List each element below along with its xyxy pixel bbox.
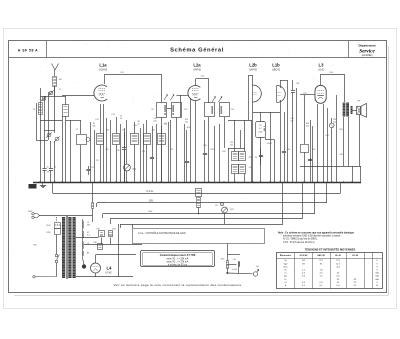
wire x94 drop bbox=[94, 130, 96, 182]
wire L4 top bbox=[95, 255, 97, 263]
wire B+ riser right bbox=[340, 182, 342, 194]
pickup jack PU bbox=[220, 202, 223, 205]
caracteristiques text bbox=[160, 254, 196, 267]
wire tube L1a bottom bbox=[103, 104, 105, 182]
wire L1b anode up bbox=[280, 80, 282, 88]
wire L2a screen down bbox=[190, 99, 192, 182]
winding tap coil 1 bbox=[83, 221, 84, 228]
detector diode tube L2b bbox=[252, 85, 261, 102]
svg-text:M 4Ω: M 4Ω bbox=[267, 143, 272, 145]
wire padder down bbox=[80, 145, 82, 182]
wire L2a grid left bbox=[177, 95, 189, 97]
svg-text:C20: C20 bbox=[142, 151, 145, 153]
IF transformer 2 primary bbox=[205, 103, 215, 117]
wire taps to lamp bbox=[83, 258, 85, 265]
antenna symbol bbox=[52, 64, 59, 77]
capacitor C15 bbox=[122, 148, 126, 150]
wire jack down bbox=[331, 128, 333, 182]
svg-text:R10: R10 bbox=[187, 127, 190, 129]
wire det link stub bbox=[265, 137, 267, 140]
wire R2 down bbox=[116, 145, 118, 183]
wire x310 drop bbox=[310, 120, 312, 182]
labels resistor row bbox=[95, 114, 190, 132]
svg-text:C25: C25 bbox=[231, 109, 234, 111]
resistor R30 hatched bbox=[226, 261, 228, 269]
wire heater y236 bbox=[76, 237, 99, 239]
C.A.G. feedback box bbox=[133, 229, 265, 244]
drawing frame border bbox=[9, 41, 387, 293]
antenna coil bbox=[53, 77, 57, 87]
svg-text:Caractéristiques haut LFT 7/: Caractéristiques haut LFT 7/58 bbox=[160, 254, 196, 257]
wire L1a anode to C51 bbox=[104, 74, 106, 84]
mains transformer secondary bbox=[68, 217, 71, 278]
wire y166 horizontal bbox=[300, 166, 361, 168]
wire L3 grid left bbox=[300, 94, 315, 96]
wire B+ line 3 bbox=[103, 213, 315, 215]
svg-text:C 54 : 27117 (au lieu 26.131 s: C 54 : 27117 (au lieu 26.131 s) bbox=[283, 242, 315, 244]
svg-text:4,7: 4,7 bbox=[259, 128, 262, 130]
svg-text:52: 52 bbox=[54, 167, 56, 169]
wire left stub 4 bbox=[110, 219, 112, 224]
wire L2a anode up bbox=[195, 79, 197, 85]
resistor R8 bbox=[131, 134, 139, 145]
wire R5 up bbox=[161, 126, 163, 134]
wire pot up bbox=[126, 120, 128, 164]
wire c8 bend bbox=[88, 171, 90, 175]
wire R5 down bbox=[161, 145, 163, 183]
coupling box bbox=[301, 145, 309, 153]
wire x152 seg2 bbox=[152, 159, 154, 182]
wire x352 drop bbox=[352, 166, 354, 182]
svg-text:R17: R17 bbox=[303, 93, 306, 95]
wire x297 drop bbox=[296, 88, 298, 182]
capacitor C17 bbox=[150, 158, 154, 159]
tone potentiometer bbox=[222, 207, 228, 213]
capacitor C58 bbox=[291, 91, 295, 93]
triode tube L1b bbox=[276, 86, 285, 103]
svg-text:C35: C35 bbox=[96, 229, 99, 231]
wire x205 seg bbox=[204, 120, 206, 153]
wire x284 seg bbox=[284, 112, 286, 151]
wire x44 cap down bbox=[44, 170, 46, 182]
loudspeaker HP bbox=[357, 103, 367, 117]
wire x219 drop bbox=[219, 124, 221, 182]
svg-text:UL41: UL41 bbox=[318, 69, 325, 72]
wire AVC up bbox=[234, 120, 236, 152]
wire C52 horizontal bbox=[196, 78, 210, 80]
variable core arrow IF2a bbox=[212, 97, 216, 103]
svg-text:L2a: L2a bbox=[193, 63, 201, 68]
svg-text:C22: C22 bbox=[184, 109, 187, 111]
wire x118 long vertical bbox=[118, 224, 120, 277]
mains connector lower bbox=[33, 276, 57, 278]
wire x337 drop bbox=[336, 95, 338, 182]
output transformer primary bbox=[343, 103, 346, 117]
resistor R13 bbox=[232, 165, 239, 174]
svg-text:C26: C26 bbox=[203, 145, 206, 147]
svg-text:100: 100 bbox=[230, 145, 233, 147]
wire switch up bbox=[56, 235, 58, 255]
wire x185 drop bbox=[184, 124, 186, 182]
wire C52 down to IF2 bbox=[208, 79, 210, 103]
wire c47 down bbox=[238, 267, 240, 273]
dropper resistor bbox=[92, 203, 94, 209]
svg-text:10n: 10n bbox=[291, 121, 294, 123]
svg-text:245V: 245V bbox=[46, 232, 51, 234]
tensions table bbox=[277, 252, 383, 289]
svg-text:C47: C47 bbox=[233, 259, 236, 261]
wire heater y244 bbox=[84, 244, 142, 246]
wire riser x283 bbox=[282, 182, 284, 224]
winding tap coil 4 bbox=[83, 251, 84, 256]
wire B+ line 1 bbox=[53, 193, 340, 195]
wire x124 drop b bbox=[124, 132, 126, 147]
svg-text:C12: C12 bbox=[95, 119, 98, 121]
svg-text:troisième semaine 1951 à 58 de: troisième semaine 1951 à 58 dernière sem… bbox=[283, 235, 342, 238]
wire R4 up bbox=[146, 120, 148, 134]
svg-text:A2: A2 bbox=[59, 78, 61, 81]
wire C58 down bbox=[292, 92, 294, 182]
wire x187 seg2 bbox=[186, 163, 188, 182]
resistor R2 bbox=[113, 134, 120, 145]
svg-text:R6: R6 bbox=[106, 130, 108, 132]
wire x71 seg bbox=[70, 120, 72, 182]
wire transformer pri down bbox=[343, 117, 345, 166]
mains transformer heater winding bbox=[73, 217, 76, 278]
svg-text:C58: C58 bbox=[296, 83, 299, 85]
svg-text:25n: 25n bbox=[333, 122, 336, 124]
svg-text:1MΩ: 1MΩ bbox=[132, 169, 137, 171]
svg-text:Voir en dernière page la note: Voir en dernière page la note concernant… bbox=[113, 283, 242, 287]
svg-text:mA: mA bbox=[375, 272, 379, 275]
winding tap coil 2 bbox=[83, 231, 84, 238]
capacitor C45 bbox=[308, 160, 312, 161]
wire x92 vertical b bbox=[92, 209, 94, 216]
wire riser x327 bbox=[326, 182, 328, 203]
resistor R25 bbox=[99, 231, 105, 237]
caracteristiques info box bbox=[141, 251, 215, 267]
volume potentiometer R3 bbox=[124, 164, 131, 171]
IF pentode tube L2a bbox=[188, 86, 200, 101]
svg-text:30V: 30V bbox=[149, 201, 154, 203]
wire x156 drop bbox=[156, 124, 158, 182]
wire left x48 bbox=[48, 92, 50, 140]
svg-text:Schéma Général: Schéma Général bbox=[170, 47, 224, 53]
wire left drop x40 bbox=[40, 88, 42, 182]
svg-text:N° 51 : 5986.51 (au lieu de 59: N° 51 : 5986.51 (au lieu de 5987), bbox=[283, 239, 318, 241]
svg-text:R7: R7 bbox=[122, 130, 124, 132]
svg-text:L3: L3 bbox=[319, 63, 325, 68]
wire y120 right link bbox=[228, 120, 252, 122]
wire B+ riser left bbox=[52, 182, 54, 194]
det box tiny text bbox=[258, 125, 262, 134]
wire left stub line2 bbox=[96, 203, 98, 207]
svg-text:L1a: L1a bbox=[99, 63, 107, 68]
wire x51 seg bbox=[50, 141, 52, 169]
speaker coupling winding bbox=[351, 106, 353, 114]
wire L2a cathode down bbox=[195, 101, 197, 182]
wire IF1 link bbox=[167, 108, 172, 110]
wire IF2 secondary down bbox=[224, 117, 226, 148]
trimmer CT2 bbox=[49, 91, 54, 96]
wire x62 drop bbox=[62, 116, 64, 182]
svg-text:Département: Département bbox=[358, 44, 375, 48]
junction dots on bus bbox=[39, 181, 353, 183]
wire R4 down bbox=[146, 145, 148, 183]
svg-text:UY 42: UY 42 bbox=[352, 254, 359, 257]
transformer core bbox=[67, 216, 68, 279]
wire IF1 primary down bbox=[161, 117, 163, 182]
svg-text:50: 50 bbox=[255, 157, 257, 159]
wire IF1 secondary down bbox=[176, 117, 178, 182]
wire mains lower riser bbox=[56, 263, 58, 277]
resistor R26 bbox=[109, 231, 113, 237]
wire c8 link bbox=[88, 166, 90, 169]
secondary taps column bbox=[82, 219, 84, 258]
mains transformer primary bbox=[62, 217, 65, 278]
voltage selector bbox=[55, 223, 61, 235]
capacitor C47 vertical plates bbox=[239, 261, 240, 266]
wire x168 drop bbox=[168, 122, 170, 182]
dial lamp bbox=[82, 265, 86, 269]
wire AVC link bbox=[228, 148, 245, 150]
wire x55 mid bbox=[54, 86, 56, 133]
title bar bottom rule bbox=[9, 57, 386, 59]
wire padder up bbox=[80, 120, 82, 134]
filter resistor hatched bbox=[197, 198, 201, 208]
svg-text:230V: 230V bbox=[28, 211, 33, 213]
wire y120 link b bbox=[66, 120, 82, 122]
wire L1b cathode down bbox=[280, 100, 282, 182]
svg-text:C7: C7 bbox=[76, 129, 78, 131]
wire x101 stub bbox=[101, 238, 103, 245]
wire x66 seg bbox=[65, 116, 67, 182]
wire selector to transformer bbox=[60, 225, 63, 227]
wire det link right bbox=[265, 139, 274, 141]
ground symbol left bbox=[40, 183, 46, 188]
wire AVC down bbox=[234, 174, 236, 183]
svg-text:C28: C28 bbox=[210, 149, 213, 151]
output pentode tube L3 bbox=[315, 85, 326, 103]
wire x124 drop bbox=[124, 128, 126, 182]
svg-text:(contrôle): (contrôle) bbox=[362, 54, 373, 57]
ground blob left bbox=[29, 184, 37, 189]
wire L3 cathode down bbox=[317, 104, 319, 182]
detector volume box (tall rounded) bbox=[256, 122, 266, 138]
wire x245 seg bbox=[244, 120, 246, 152]
svg-text:110V: 110V bbox=[46, 225, 51, 227]
svg-text:C44: C44 bbox=[325, 135, 328, 137]
oscillator coil bbox=[38, 103, 42, 115]
svg-text:E55: E55 bbox=[33, 245, 36, 247]
resistor R4 bbox=[144, 134, 151, 145]
wire x171 drop bbox=[170, 120, 172, 182]
wire mains line bbox=[40, 215, 93, 217]
wire x310 fix bbox=[310, 158, 312, 161]
svg-text:6,3: 6,3 bbox=[87, 235, 90, 237]
wire x284 seg2 bbox=[284, 153, 286, 182]
title bar left box separator bbox=[46, 41, 48, 58]
svg-text:B6: B6 bbox=[87, 253, 89, 255]
wire coupling up bbox=[304, 95, 306, 144]
oscillator coil box bbox=[63, 105, 69, 117]
svg-text:C.A.G.: C.A.G. bbox=[146, 190, 154, 193]
wire switch dash up bbox=[56, 217, 58, 222]
svg-text:1k: 1k bbox=[138, 124, 140, 126]
left tiny labels bbox=[33, 89, 99, 174]
wire riser x302 bbox=[302, 182, 304, 219]
wire transformer sec down bbox=[348, 117, 350, 166]
note text block bbox=[278, 231, 355, 244]
svg-text:C14: C14 bbox=[133, 125, 136, 127]
trimmer CT3 bbox=[46, 132, 51, 137]
svg-text:0,1µF: 0,1µF bbox=[232, 269, 238, 271]
variable core arrow IF1b bbox=[171, 95, 175, 101]
jack circle right bbox=[330, 123, 335, 128]
IF transformer 1 secondary bbox=[172, 103, 182, 118]
wire left x44 bbox=[44, 96, 46, 135]
triode-heptode tube L1a bbox=[94, 85, 107, 101]
wire left stub 5 bbox=[120, 224, 122, 228]
wire R1 up bbox=[100, 104, 102, 134]
wire y120 link bbox=[40, 120, 62, 122]
IF transformer 1 primary bbox=[157, 103, 167, 118]
wire x110 drop bbox=[110, 120, 112, 182]
frame shadow right bbox=[388, 46, 390, 295]
svg-text:L4: L4 bbox=[107, 265, 113, 270]
wire x187 seg bbox=[186, 130, 188, 161]
variable core arrow IF1a bbox=[164, 95, 168, 101]
mains switch bbox=[55, 254, 59, 263]
wire cag drop x227 b bbox=[227, 269, 229, 274]
capacitor C4 bbox=[49, 169, 53, 171]
svg-text:R5: R5 bbox=[164, 124, 166, 126]
wire x313 drop bbox=[312, 126, 314, 182]
svg-text:R2: R2 bbox=[96, 160, 98, 162]
svg-text:R19: R19 bbox=[339, 129, 342, 131]
wire IF2 primary down bbox=[208, 117, 210, 182]
wire L3 anode up bbox=[320, 74, 322, 85]
svg-text:L6: L6 bbox=[33, 109, 35, 111]
resistor R12 bbox=[239, 152, 246, 161]
wire L2b cathode down bbox=[252, 102, 254, 183]
svg-text:C33: C33 bbox=[287, 149, 290, 151]
wire C51 down to IF1 bbox=[161, 74, 163, 102]
wire x110 stub bbox=[110, 238, 112, 245]
trimmer CT4 bbox=[54, 136, 59, 141]
svg-text:Note : Ce schéma ne concerne q: Note : Ce schéma ne concerne que tout ap… bbox=[278, 231, 355, 234]
wire antenna switch link bbox=[40, 96, 55, 98]
wire jack up bbox=[331, 118, 333, 123]
wire R8 up bbox=[134, 122, 136, 134]
rectifier tube L4 bbox=[91, 263, 101, 273]
svg-text:0,5M: 0,5M bbox=[258, 132, 262, 134]
wire x215 drop bbox=[214, 126, 216, 182]
resistor R20 bbox=[196, 189, 202, 197]
wire x51 seg2 bbox=[50, 170, 52, 182]
IF transformer 2 secondary bbox=[220, 103, 230, 117]
junction dot x198 bbox=[198, 213, 200, 215]
wire B+ line 2 bbox=[97, 202, 327, 204]
wire x92 down to L4 bbox=[92, 216, 94, 223]
svg-text:C48: C48 bbox=[339, 154, 342, 156]
svg-text:C36: C36 bbox=[93, 242, 96, 244]
winding tap coil 3 bbox=[83, 242, 84, 249]
wire x124 drop c bbox=[124, 150, 126, 182]
wire speaker down bbox=[359, 115, 361, 167]
wire tone pot down bbox=[224, 213, 226, 224]
wire speaker feed bbox=[353, 110, 358, 112]
wire x327 drop a bbox=[327, 108, 329, 182]
wire x251 drop bbox=[251, 120, 253, 182]
wire L1b right drop bbox=[287, 80, 289, 182]
wire stub y254 bbox=[227, 254, 240, 256]
padder box bbox=[77, 135, 90, 145]
wire c32 seg2 bbox=[260, 157, 262, 165]
resistor R5 bbox=[158, 134, 166, 145]
svg-text:20: 20 bbox=[47, 167, 49, 169]
resistor R1 bbox=[97, 134, 104, 145]
svg-text:UAF 42: UAF 42 bbox=[317, 254, 325, 257]
resistor R27 bbox=[98, 244, 103, 250]
capacitor C8 bbox=[86, 170, 90, 171]
svg-text:C3: C3 bbox=[47, 172, 49, 174]
capacitor C33 bbox=[282, 152, 286, 153]
svg-text:C1: C1 bbox=[59, 89, 61, 91]
svg-text:1/2: 1/2 bbox=[259, 125, 262, 127]
svg-text:sens 7Ω : i = 376 mA: sens 7Ω : i = 376 mA bbox=[167, 261, 189, 264]
wire left stub 3 bbox=[102, 214, 104, 219]
svg-text:C8: C8 bbox=[91, 167, 93, 169]
wire x140 drop bbox=[140, 128, 142, 182]
tap labels bbox=[87, 222, 91, 255]
mains plug upper bbox=[32, 213, 40, 219]
wire stub y264 bbox=[227, 264, 236, 266]
output transformer secondary bbox=[346, 103, 349, 117]
wire x143 drop bbox=[143, 124, 145, 182]
wire B+ line 4 bbox=[110, 218, 302, 220]
scattered component value labels bbox=[93, 116, 343, 157]
trimmer CT1 bbox=[42, 96, 47, 101]
wire grid L1a left bbox=[62, 95, 94, 97]
wire L2a grid vertical bbox=[180, 95, 182, 117]
wire L1b top bend bbox=[280, 80, 288, 82]
variable core arrow IF2b bbox=[219, 97, 223, 103]
svg-text:à la fréq. de 50 c/s: à la fréq. de 50 c/s bbox=[168, 264, 188, 267]
svg-text:UCH42: UCH42 bbox=[99, 69, 108, 72]
wire L4 bottom bbox=[95, 273, 97, 277]
wire c32 seg bbox=[260, 148, 262, 155]
svg-text:R24: R24 bbox=[112, 229, 115, 231]
wire L2b anode up bbox=[252, 76, 254, 86]
svg-text:-14V: -14V bbox=[148, 211, 153, 213]
wire riser x315 bbox=[314, 182, 316, 214]
wire y96 link bbox=[55, 96, 66, 98]
wire C58 up bbox=[292, 80, 294, 91]
wire R8 down bbox=[134, 145, 136, 183]
svg-text:50: 50 bbox=[120, 118, 122, 120]
capacitor C27 bbox=[203, 154, 207, 155]
wire B+ line 5 bbox=[120, 224, 283, 226]
resistor R11 bbox=[232, 152, 239, 161]
wire y131 link bbox=[44, 130, 55, 132]
svg-text:UAF42: UAF42 bbox=[193, 69, 201, 72]
wire det box down bbox=[260, 137, 262, 182]
svg-text:R21: R21 bbox=[230, 209, 233, 211]
svg-text:R12: R12 bbox=[222, 151, 225, 153]
wire to output transformer bbox=[344, 74, 346, 102]
frame shadow bottom bbox=[14, 295, 389, 297]
